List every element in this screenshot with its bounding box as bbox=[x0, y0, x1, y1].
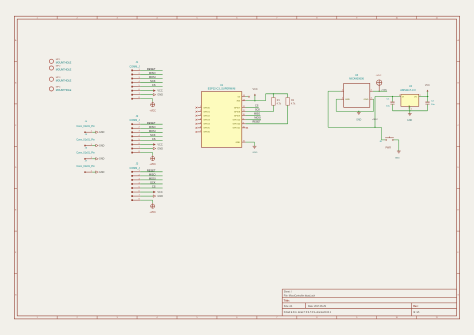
svg-text:GND: GND bbox=[395, 158, 400, 160]
svg-text:1: 1 bbox=[91, 131, 92, 133]
svg-text:MIC4800606: MIC4800606 bbox=[349, 78, 364, 81]
svg-text:GPIO9: GPIO9 bbox=[234, 116, 241, 118]
U3 pin 1 left bbox=[341, 90, 344, 92]
connector J7 Conn_01x01_Pin bbox=[76, 161, 95, 173]
wire J3 pin3 to label MOSI bbox=[140, 179, 162, 181]
wire J3 pin5 to label CS bbox=[140, 187, 162, 189]
svg-text:1: 1 bbox=[37, 18, 38, 20]
svg-text:1: 1 bbox=[411, 109, 412, 111]
svg-text:6: 6 bbox=[139, 89, 140, 91]
svg-text:Title:: Title: bbox=[284, 299, 290, 303]
svg-text:MP2: MP2 bbox=[56, 66, 61, 68]
svg-text:5: 5 bbox=[196, 18, 197, 20]
mounting hole MP3 bbox=[49, 77, 71, 83]
wire U1 GPIO7 CS bbox=[246, 107, 259, 109]
no-connect on U1 5V pin bbox=[246, 96, 249, 98]
svg-text:Date: 2017-06-29: Date: 2017-06-29 bbox=[308, 305, 327, 308]
connector J1 pin 4 bbox=[131, 81, 140, 83]
svg-text:6: 6 bbox=[139, 190, 140, 192]
junction at U4 ground bbox=[409, 110, 410, 111]
svg-text:VCC: VCC bbox=[157, 191, 162, 194]
junction at U3 ground symbol bbox=[358, 111, 359, 112]
svg-text:GPIO6: GPIO6 bbox=[203, 132, 210, 134]
U1 right pin 5V bbox=[238, 95, 246, 98]
power flag VCC at regulator output bbox=[425, 84, 430, 97]
regulator U4 AMS1117-3.3 bbox=[400, 86, 419, 109]
svg-text:2: 2 bbox=[139, 174, 140, 176]
svg-text:8: 8 bbox=[243, 122, 244, 124]
junction on bottom feed bbox=[374, 127, 375, 128]
svg-text:GND: GND bbox=[407, 120, 412, 122]
connector J1 pin 5 bbox=[131, 85, 140, 87]
svg-text:8: 8 bbox=[139, 199, 140, 201]
U3 pin GND left bbox=[341, 98, 351, 101]
svg-text:7: 7 bbox=[276, 18, 277, 20]
svg-text:6: 6 bbox=[236, 18, 237, 20]
svg-text:MP3: MP3 bbox=[56, 77, 61, 79]
GND flag at J7 bbox=[96, 171, 105, 174]
wire J1 pin2 to label MISO bbox=[140, 73, 162, 75]
ground symbol below switch bbox=[395, 151, 401, 160]
connector J3 pin 3 bbox=[131, 178, 140, 180]
svg-text:7: 7 bbox=[139, 147, 140, 149]
U1 left pin GPIO4 with no-connect bbox=[196, 122, 211, 125]
svg-text:Conn_01x01_Pin: Conn_01x01_Pin bbox=[76, 138, 95, 141]
GND flag at J6 bbox=[96, 158, 105, 161]
svg-text:GPIO5: GPIO5 bbox=[203, 128, 210, 130]
wire J1 pin5 to label CS bbox=[140, 86, 162, 88]
ground symbol below U3 bbox=[356, 111, 361, 121]
wire bottom feed to switch bbox=[328, 127, 385, 140]
svg-text:7: 7 bbox=[200, 130, 201, 132]
capacitor C1 10u bbox=[386, 97, 394, 111]
wire J3 pin4 to label SCK bbox=[140, 183, 162, 185]
svg-text:GND: GND bbox=[236, 142, 241, 144]
capacitor C2 10u bbox=[425, 97, 435, 111]
svg-text:5: 5 bbox=[139, 139, 140, 141]
svg-text:10: 10 bbox=[396, 18, 398, 20]
wire ground rail under regulator bbox=[393, 110, 428, 112]
svg-text:CS: CS bbox=[255, 104, 259, 107]
U1 left pin GPIO3 with no-connect bbox=[196, 118, 211, 121]
wire +VDC vertical feed bbox=[374, 97, 376, 128]
svg-text:11: 11 bbox=[436, 18, 438, 20]
wire J1 pin4 to label SCK bbox=[140, 82, 162, 84]
svg-text:MOUNTHOLE: MOUNTHOLE bbox=[56, 89, 72, 92]
U1 right pin 3V3 bbox=[236, 99, 245, 102]
svg-text:GND: GND bbox=[99, 171, 105, 174]
wire J6 pin to GND flag bbox=[92, 158, 95, 160]
wire from U3 input loop bbox=[328, 91, 341, 127]
ground symbol below U1 bbox=[252, 146, 257, 154]
wire U1 GPIO10 MOSI bbox=[246, 119, 261, 121]
title block frame bbox=[282, 289, 456, 316]
svg-text:SCK: SCK bbox=[150, 181, 156, 185]
svg-text:+VDC: +VDC bbox=[149, 163, 156, 166]
svg-text:Conn_01x01_Pin: Conn_01x01_Pin bbox=[76, 165, 95, 168]
svg-text:PWR: PWR bbox=[386, 147, 392, 149]
border row letters bbox=[15, 39, 460, 296]
wire U1 GPIO8 SCK to R1 bbox=[246, 111, 274, 113]
wire J2 pin2 to label MISO bbox=[140, 127, 162, 129]
svg-text:GPIO2: GPIO2 bbox=[203, 116, 210, 118]
U1 left pin GPIO6 with no-connect bbox=[196, 130, 211, 133]
resistor R2 4.7k bbox=[286, 94, 296, 124]
wire J4 pin to GND flag bbox=[92, 131, 95, 133]
svg-text:1: 1 bbox=[91, 157, 92, 159]
svg-text:+VDC: +VDC bbox=[381, 90, 387, 92]
svg-text:9: 9 bbox=[356, 18, 357, 20]
wire U3 ground loop bbox=[336, 99, 373, 111]
svg-text:Rev:: Rev: bbox=[413, 305, 418, 308]
junction at C2 and VCC arrow bbox=[427, 96, 428, 97]
svg-text:8: 8 bbox=[139, 151, 140, 153]
svg-text:AMS1117-3.3: AMS1117-3.3 bbox=[400, 88, 416, 92]
svg-text:8: 8 bbox=[316, 18, 317, 20]
svg-text:GPIO0: GPIO0 bbox=[203, 107, 210, 109]
svg-text:MISO: MISO bbox=[254, 113, 260, 116]
wire J2 pin6 to VCC flag bbox=[140, 143, 153, 145]
svg-text:2: 2 bbox=[200, 110, 201, 112]
svg-text:9: 9 bbox=[243, 118, 244, 120]
svg-text:3: 3 bbox=[139, 131, 140, 133]
svg-text:4: 4 bbox=[371, 90, 372, 92]
connector J3 pin 1 bbox=[131, 170, 140, 172]
connector J2 pin 1 bbox=[131, 123, 140, 125]
VCC flag at J1 bbox=[153, 89, 163, 92]
U1 right pin GPIO7 bbox=[234, 106, 246, 109]
mounting hole MP4 bbox=[49, 87, 71, 93]
connector J3 pin 2 bbox=[131, 174, 140, 176]
GND flag at J2 bbox=[153, 147, 163, 150]
svg-text:GPIO4: GPIO4 bbox=[203, 124, 210, 126]
connector J1 reference and value COMM_J bbox=[130, 61, 141, 68]
svg-text:MP4: MP4 bbox=[56, 87, 61, 89]
wire J1 pin8 to +VDC bbox=[140, 99, 153, 102]
U1 left pin GPIO1 with no-connect bbox=[196, 110, 211, 113]
GND flag at J5 bbox=[96, 144, 105, 147]
svg-text:GND: GND bbox=[99, 158, 105, 161]
border column ticks top and bottom bbox=[57, 16, 417, 319]
svg-text:1: 1 bbox=[139, 69, 140, 71]
connector J1 pin 6 bbox=[131, 89, 140, 91]
svg-text:7: 7 bbox=[139, 195, 140, 197]
wire J3 pin7 to GND flag bbox=[140, 195, 153, 197]
svg-text:MP1: MP1 bbox=[56, 59, 61, 61]
junction at +VDC drop bbox=[379, 91, 380, 92]
wire U1 GPIO20 RESET to R2 bbox=[246, 123, 288, 125]
no-connect on U1 GPIO21 pin bbox=[246, 127, 248, 129]
power symbol +VDC at J1 bbox=[149, 102, 156, 113]
svg-text:Size: A4: Size: A4 bbox=[284, 305, 293, 308]
svg-text:10: 10 bbox=[396, 317, 398, 319]
svg-text:6: 6 bbox=[139, 143, 140, 145]
wire switch to ground bbox=[394, 140, 399, 151]
svg-text:2: 2 bbox=[139, 127, 140, 129]
wire J2 pin7 to GND flag bbox=[140, 148, 153, 150]
U1 right pin GND bbox=[236, 141, 246, 144]
wire U1 GPIO9 MISO bbox=[246, 115, 261, 117]
U4 pin numbers bbox=[399, 95, 421, 111]
svg-text:GND: GND bbox=[345, 99, 350, 101]
U1 left pin GPIO5 with no-connect bbox=[196, 126, 211, 129]
mounting hole MP2 bbox=[49, 66, 71, 72]
svg-text:+VDC: +VDC bbox=[372, 119, 378, 121]
connector J2 pin 7 bbox=[131, 147, 140, 149]
connector J2 pin 6 bbox=[131, 143, 140, 145]
svg-text:GPIO1: GPIO1 bbox=[203, 111, 210, 113]
junction at R1 top bbox=[273, 93, 274, 94]
power symbol +VDC at J2 bbox=[149, 155, 156, 166]
svg-text:3: 3 bbox=[200, 114, 201, 116]
GND flag at J4 bbox=[96, 131, 105, 134]
svg-text:4: 4 bbox=[157, 317, 158, 319]
U3 pin output right bbox=[370, 90, 373, 92]
U1 right pin GPIO9 bbox=[234, 114, 246, 117]
wire J2 pin5 to label CS bbox=[140, 139, 162, 141]
wire J1 pin7 to GND flag bbox=[140, 94, 153, 96]
svg-text:SCK: SCK bbox=[150, 133, 156, 137]
wire regulator output bbox=[419, 96, 429, 98]
svg-text:1: 1 bbox=[91, 171, 92, 173]
wire J2 pin1 to label RESET bbox=[140, 123, 162, 125]
wire J3 pin2 to label MISO bbox=[140, 175, 162, 177]
svg-text:MOUNTHOLE: MOUNTHOLE bbox=[56, 80, 72, 83]
connector J4 Conn_01x01_Pin bbox=[76, 121, 95, 133]
svg-text:KiCad E.D.A. kicad 7.0.9-7.0.: KiCad E.D.A. kicad 7.0.9-7.0.9~ubuntu22.… bbox=[284, 311, 332, 314]
svg-text:MOSI: MOSI bbox=[149, 129, 156, 133]
wire J7 pin to GND flag bbox=[92, 171, 95, 173]
svg-text:GPIO3: GPIO3 bbox=[203, 120, 210, 122]
svg-text:RESET: RESET bbox=[147, 67, 156, 71]
svg-text:GND: GND bbox=[157, 147, 163, 150]
svg-text:7: 7 bbox=[139, 93, 140, 95]
svg-text:6: 6 bbox=[236, 317, 237, 319]
svg-text:1: 1 bbox=[342, 90, 343, 92]
wire J1 pin6 to VCC flag bbox=[140, 90, 153, 92]
svg-text:+VDC: +VDC bbox=[375, 75, 381, 77]
svg-text:Conn_01x01_Pin: Conn_01x01_Pin bbox=[76, 152, 95, 155]
wire J3 pin1 to label RESET bbox=[140, 171, 162, 173]
VCC flag at J2 bbox=[153, 143, 163, 146]
wire J2 pin3 to label MOSI bbox=[140, 131, 162, 133]
svg-text:MOUNTHOLE: MOUNTHOLE bbox=[56, 68, 72, 71]
svg-text:10: 10 bbox=[243, 114, 245, 116]
svg-text:+VDC: +VDC bbox=[149, 211, 156, 214]
svg-text:VO: VO bbox=[414, 96, 417, 98]
svg-text:GND: GND bbox=[157, 195, 163, 198]
svg-text:MISO: MISO bbox=[149, 172, 156, 176]
U1 right pin GPIO10 bbox=[233, 118, 246, 121]
svg-text:2: 2 bbox=[77, 317, 78, 319]
svg-text:Id: 1/1: Id: 1/1 bbox=[413, 312, 420, 314]
wire pull-up rail bbox=[266, 93, 288, 95]
module U1 ESP32-C3_SUPERMINI body bbox=[201, 84, 241, 147]
wire J1 pin3 to label MOSI bbox=[140, 78, 162, 80]
U4 ground pin wire bbox=[409, 106, 411, 111]
U1 right pin GPIO20 bbox=[233, 122, 246, 125]
svg-text:4: 4 bbox=[157, 18, 158, 20]
connector J3 pin 6 bbox=[131, 190, 140, 192]
connector J3 pin 5 bbox=[131, 186, 140, 188]
svg-text:GPIO10: GPIO10 bbox=[233, 120, 241, 122]
svg-text:MOSI: MOSI bbox=[254, 117, 261, 120]
IC U3 body bbox=[344, 74, 370, 107]
connector J5 Conn_01x01_Pin bbox=[76, 134, 95, 146]
svg-text:RESET: RESET bbox=[252, 121, 261, 124]
svg-text:7: 7 bbox=[276, 317, 277, 319]
connector J2 pin 4 bbox=[131, 135, 140, 137]
svg-text:2: 2 bbox=[139, 73, 140, 75]
svg-text:12: 12 bbox=[243, 106, 245, 108]
resistor R1 4.7k bbox=[272, 94, 282, 112]
wire U3 output to +VDC bbox=[373, 90, 387, 92]
svg-text:RESET: RESET bbox=[147, 168, 156, 172]
svg-text:GND: GND bbox=[252, 152, 257, 154]
svg-text:5: 5 bbox=[196, 317, 197, 319]
svg-text:4: 4 bbox=[139, 182, 140, 184]
wire U1 3V3 to pull-up rail bbox=[246, 94, 266, 101]
svg-text:GND: GND bbox=[364, 99, 369, 101]
svg-text:3: 3 bbox=[139, 77, 140, 79]
U1 left pin GPIO2 with no-connect bbox=[196, 114, 211, 117]
connector J2 reference and value COMM_J bbox=[130, 115, 141, 122]
wire J3 pin8 to +VDC bbox=[140, 200, 153, 203]
svg-text:Conn_01x01_Pin: Conn_01x01_Pin bbox=[76, 125, 95, 128]
border row ticks left and right bbox=[14, 62, 459, 274]
connector J1 pin 3 bbox=[131, 77, 140, 79]
wire J2 pin4 to label SCK bbox=[140, 135, 162, 137]
svg-text:1: 1 bbox=[139, 170, 140, 172]
svg-text:ESP32-C3_SUPERMINI: ESP32-C3_SUPERMINI bbox=[208, 88, 236, 91]
svg-text:GPIO20: GPIO20 bbox=[233, 124, 241, 126]
svg-text:1: 1 bbox=[200, 106, 201, 108]
svg-text:Sheet: /: Sheet: / bbox=[284, 290, 292, 293]
svg-text:MISO: MISO bbox=[149, 71, 156, 75]
svg-text:8: 8 bbox=[139, 97, 140, 99]
U1 right pin GPIO21 bbox=[233, 126, 246, 129]
wire U1 GND pin bbox=[246, 142, 255, 146]
svg-text:GND: GND bbox=[99, 144, 105, 147]
U1 left pin GPIO0 with no-connect bbox=[196, 106, 211, 109]
wire J1 pin1 to label RESET bbox=[140, 69, 162, 71]
svg-text:+VDC: +VDC bbox=[149, 109, 156, 112]
svg-text:11: 11 bbox=[243, 110, 245, 112]
svg-text:RESET: RESET bbox=[147, 121, 156, 125]
svg-text:1: 1 bbox=[37, 317, 38, 319]
svg-text:1: 1 bbox=[91, 144, 92, 146]
svg-text:SCK: SCK bbox=[150, 79, 156, 83]
svg-text:GND: GND bbox=[157, 94, 163, 97]
svg-text:6: 6 bbox=[200, 126, 201, 128]
connector J2 pin 2 bbox=[131, 127, 140, 129]
svg-text:CS: CS bbox=[152, 83, 156, 87]
svg-text:3: 3 bbox=[117, 317, 118, 319]
svg-text:CS: CS bbox=[152, 137, 156, 141]
svg-text:3: 3 bbox=[399, 95, 400, 97]
power symbol +VDC at J3 bbox=[149, 203, 156, 214]
ground symbol below regulator bbox=[407, 111, 412, 122]
connector J2 pin 8 bbox=[131, 151, 140, 153]
svg-text:VCC: VCC bbox=[425, 84, 430, 87]
svg-text:MOUNTHOLE: MOUNTHOLE bbox=[56, 62, 72, 65]
svg-text:3: 3 bbox=[139, 178, 140, 180]
svg-text:9: 9 bbox=[356, 317, 357, 319]
svg-text:13: 13 bbox=[243, 99, 245, 101]
svg-text:4: 4 bbox=[139, 135, 140, 137]
connector J1 pin 2 bbox=[131, 73, 140, 75]
wire J3 pin6 to VCC flag bbox=[140, 191, 153, 193]
svg-text:3: 3 bbox=[117, 18, 118, 20]
connector J3 pin 7 bbox=[131, 195, 140, 197]
svg-text:2: 2 bbox=[77, 18, 78, 20]
power symbol +VDC above U3 output bbox=[375, 75, 381, 91]
svg-text:VCC: VCC bbox=[252, 88, 257, 91]
svg-text:4: 4 bbox=[200, 118, 201, 120]
svg-text:4: 4 bbox=[139, 81, 140, 83]
GND flag at J3 bbox=[153, 195, 163, 198]
svg-text:GPIO21: GPIO21 bbox=[233, 128, 241, 130]
switch J8 PWR push button bbox=[379, 137, 393, 150]
svg-text:5: 5 bbox=[139, 85, 140, 87]
svg-text:GPIO8: GPIO8 bbox=[234, 111, 241, 113]
svg-text:GND: GND bbox=[356, 119, 361, 121]
svg-text:11: 11 bbox=[436, 317, 438, 319]
svg-text:MISO: MISO bbox=[149, 125, 156, 129]
connector J2 pin 3 bbox=[131, 131, 140, 133]
U3 pin GND right bbox=[364, 98, 373, 101]
svg-text:GPIO7: GPIO7 bbox=[234, 107, 241, 109]
connector J2 pin 5 bbox=[131, 139, 140, 141]
svg-text:14: 14 bbox=[243, 95, 245, 97]
svg-text:SCK: SCK bbox=[255, 108, 260, 111]
svg-text:MOSI: MOSI bbox=[149, 177, 156, 181]
svg-text:16: 16 bbox=[243, 141, 245, 143]
svg-text:5: 5 bbox=[139, 186, 140, 188]
wire J5 pin to GND flag bbox=[92, 145, 95, 147]
border column numbers bbox=[37, 18, 438, 320]
connector J6 Conn_01x01_Pin bbox=[76, 147, 95, 159]
junction on 3V3 wire at VCC flag bbox=[254, 100, 255, 101]
wire +VDC rail to regulator input bbox=[375, 96, 401, 98]
connector J1 pin 7 bbox=[131, 93, 140, 95]
svg-text:VCC: VCC bbox=[157, 143, 162, 146]
connector J3 pin 8 bbox=[131, 199, 140, 201]
svg-text:2: 2 bbox=[342, 98, 343, 100]
svg-text:CS: CS bbox=[152, 185, 156, 189]
connector J1 pin 8 bbox=[131, 97, 140, 99]
svg-text:File: MicroController.kicad_sc: File: MicroController.kicad_sch bbox=[284, 294, 316, 297]
svg-text:1: 1 bbox=[139, 123, 140, 125]
wire J2 pin8 to +VDC bbox=[140, 153, 153, 156]
mounting hole MP1 bbox=[49, 59, 71, 65]
U1 right pin GPIO8 bbox=[234, 110, 246, 113]
svg-text:8: 8 bbox=[316, 317, 317, 319]
GND flag at J1 bbox=[153, 93, 163, 96]
VCC flag at J3 bbox=[153, 191, 163, 194]
power flag VCC above U1 bbox=[252, 88, 257, 101]
connector J1 pin 1 bbox=[131, 69, 140, 71]
svg-text:3: 3 bbox=[371, 98, 372, 100]
svg-text:15: 15 bbox=[243, 126, 245, 128]
junction at regulator input and C1 bbox=[392, 96, 393, 97]
svg-text:GND: GND bbox=[99, 131, 105, 134]
connector J3 pin 4 bbox=[131, 182, 140, 184]
svg-text:VCC: VCC bbox=[157, 90, 162, 93]
connector J3 reference and value COMM_J bbox=[130, 162, 141, 169]
svg-text:MOSI: MOSI bbox=[149, 75, 156, 79]
svg-text:5: 5 bbox=[200, 122, 201, 124]
